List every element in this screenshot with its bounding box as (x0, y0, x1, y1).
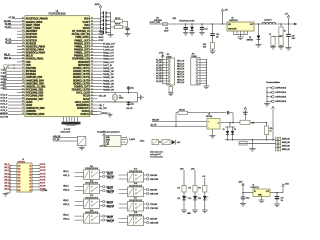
Chucks installation terminal list (264, 81, 287, 106)
svg-text:TMS/AN10_RB10: TMS/AN10_RB10 (26, 112, 45, 116)
svg-text:CAPRCH2UB: CAPRCH2UB (275, 91, 287, 94)
svg-text:O9: O9 (29, 190, 31, 192)
svg-text:CAPRCH4UB: CAPRCH4UB (275, 100, 287, 103)
LED LD3 with resistor R15 (198, 176, 208, 212)
op-amp U4 (206, 114, 220, 129)
resistor R7 at U1 bottom right (90, 112, 113, 118)
output wire +3V3 (270, 183, 290, 193)
ground under U4 (210, 129, 216, 138)
fuse and terminal pair TB1 (152, 140, 181, 145)
svg-text:battery circuit: battery circuit (61, 131, 71, 134)
svg-text:VBUS: VBUS (98, 37, 104, 39)
svg-text:P_SYNC_IN: P_SYNC_IN (103, 49, 114, 51)
svg-text:LIN9_D: LIN9_D (4, 189, 10, 191)
power flag +UP and capacitor C18 (285, 14, 296, 51)
fuse F1 (154, 18, 168, 26)
off-sheet arrow at rail end (294, 23, 298, 26)
svg-text:MBR360: MBR360 (247, 40, 253, 42)
svg-text:C5B COM5: C5B COM5 (150, 179, 158, 181)
ground under bus (249, 140, 255, 151)
svg-text:10u: 10u (216, 37, 219, 39)
svg-text:ROUT7: ROUT7 (40, 183, 46, 185)
svg-text:LIN7_D: LIN7_D (4, 183, 10, 185)
crystal Y2 32kHz at left (3, 64, 17, 70)
svg-text:1u: 1u (107, 28, 109, 30)
regulator U2 LM2576 (227, 17, 254, 39)
svg-text:VIN7_D: VIN7_D (107, 203, 113, 205)
output net ladder at U1 lower left (0, 95, 17, 119)
svg-text:PWM4_OUT: PWM4_OUT (103, 62, 115, 64)
svg-text:PWM1L_DR: PWM1L_DR (103, 68, 114, 70)
capacitor C21 (240, 192, 249, 206)
svg-text:SD_CS: SD_CS (5, 27, 12, 29)
net label column between headers (177, 61, 185, 84)
svg-text:C24 C25: C24 C25 (126, 108, 132, 110)
svg-text:+U_PME: +U_PME (40, 190, 48, 192)
resistor R23 on lower bus (239, 141, 247, 145)
power arrow at x273 (272, 106, 275, 140)
svg-text:PWM4H_DR: PWM4H_DR (103, 89, 115, 91)
svg-text:R7 1M: R7 1M (102, 113, 107, 115)
svg-text:R9 10K: R9 10K (115, 24, 121, 26)
svg-text:PWM3H_DR: PWM3H_DR (103, 83, 115, 85)
svg-text:LIN4_D: LIN4_D (4, 173, 10, 175)
svg-text:IN9: IN9 (18, 190, 21, 192)
svg-text:VSS8_D: VSS8_D (107, 221, 114, 223)
svg-text:C6A CAW: C6A CAW (150, 188, 158, 191)
svg-text:LIN5_D: LIN5_D (4, 176, 10, 178)
svg-text:VIN6_D: VIN6_D (107, 188, 113, 190)
diode D2 shunt (189, 23, 195, 35)
output wire of U4 (220, 122, 240, 123)
svg-text:100u: 100u (292, 38, 296, 40)
svg-text:D5: D5 (223, 129, 225, 131)
svg-text:PP97T: PP97T (1, 85, 7, 87)
svg-text:1u: 1u (107, 32, 109, 34)
svg-text:K9_RD: K9_RD (156, 81, 162, 83)
svg-text:C8B COM8: C8B COM8 (150, 222, 158, 224)
svg-text:VIN8_D: VIN8_D (107, 217, 113, 219)
svg-text:LIN6_D: LIN6_D (4, 179, 10, 181)
svg-text:S_BUS: S_BUS (129, 139, 136, 141)
svg-text:C8A CAW: C8A CAW (150, 217, 158, 220)
resistor R22 vertical (264, 122, 272, 140)
svg-text:O4: O4 (29, 174, 31, 176)
svg-text:+5Vxx: +5Vxx (140, 141, 145, 143)
svg-text:OUT6_D: OUT6_D (0, 110, 8, 112)
svg-text:15p: 15p (131, 103, 134, 105)
svg-text:PULSE_CNT: PULSE_CNT (103, 46, 115, 48)
svg-text:SMDA05B: SMDA05B (154, 19, 162, 22)
svg-text:C7B COM7: C7B COM7 (150, 208, 158, 210)
svg-text:L2 200uH: L2 200uH (264, 20, 272, 22)
power flag AVDD (95, 3, 102, 12)
U1 right pins with pin numbers and names (72, 17, 98, 116)
power flag +5VD at JP1 (159, 52, 165, 83)
net labels and wires at U1 left edge (4, 16, 17, 59)
capacitor C16 and resistor R10 branch (203, 23, 219, 53)
svg-text:OUT5_D: OUT5_D (0, 107, 8, 109)
svg-text:470: 470 (198, 187, 201, 189)
svg-text:+3V3: +3V3 (180, 168, 184, 170)
svg-text:+5 VD: +5 VD (159, 52, 164, 54)
svg-text:VSS6_D: VSS6_D (107, 192, 114, 194)
regulator U5 LM1117-3.3 (243, 185, 270, 203)
relay RL1 (63, 166, 114, 179)
feedback resistors R11 R12 R13 (269, 23, 287, 49)
svg-text:AN7W_UB: AN7W_UB (282, 145, 291, 148)
svg-text:ROUT1: ROUT1 (40, 164, 46, 166)
svg-text:RT_BUZ_OUT: RT_BUZ_OUT (103, 43, 116, 45)
svg-text:KEY9_IN: KEY9_IN (177, 82, 185, 84)
svg-text:CAPRCH1UB: CAPRCH1UB (275, 87, 287, 90)
analog SMD proportional connector (97, 131, 144, 148)
relay RL6 (107, 183, 158, 196)
inductor L2 (262, 20, 276, 24)
svg-text:VSS5_D: VSS5_D (107, 178, 114, 180)
svg-text:LD3: LD3 (198, 198, 201, 200)
svg-text:AN6W_UB: AN6W_UB (282, 141, 291, 144)
svg-text:IN6: IN6 (18, 181, 21, 183)
relay RL4 (63, 210, 114, 223)
header J2 bottom left (3, 159, 48, 196)
svg-text:ROUT2: ROUT2 (40, 167, 46, 169)
svg-text:PIC24FJ256GB110: PIC24FJ256GB110 (48, 14, 66, 16)
svg-text:OUT3_D: OUT3_D (0, 101, 8, 103)
svg-text:MCP601: MCP601 (206, 116, 212, 118)
svg-text:IN7: IN7 (18, 184, 21, 186)
svg-text:O1: O1 (29, 165, 31, 167)
svg-text:ROUT8: ROUT8 (40, 186, 46, 188)
svg-text:LIN3_D: LIN3_D (4, 170, 10, 172)
svg-text:IN1: IN1 (18, 165, 21, 167)
svg-text:VIN4_D: VIN4_D (63, 215, 69, 217)
battery circuit (53, 131, 86, 150)
svg-text:ROUT3: ROUT3 (40, 170, 46, 172)
net labels AN5_MV and AD_TR (151, 119, 208, 127)
svg-text:VUSB: VUSB (98, 34, 104, 36)
svg-text:R20 10K: R20 10K (179, 110, 186, 112)
svg-text:10u: 10u (281, 200, 284, 202)
svg-text:O6: O6 (29, 181, 31, 183)
svg-text:O7: O7 (29, 184, 31, 186)
svg-text:1u: 1u (107, 20, 109, 22)
svg-text:VIN2_D: VIN2_D (63, 185, 69, 187)
svg-text:SM1: SM1 (173, 18, 176, 20)
svg-text:Terminal B slot 201: Terminal B slot 201 (150, 155, 163, 158)
svg-text:+3V2: +3V2 (191, 168, 195, 170)
svg-text:CAPRCH3UB: CAPRCH3UB (275, 96, 287, 99)
U1 left pins with pin numbers and names (17, 17, 48, 116)
series resistor R21 (240, 120, 267, 124)
svg-text:1u: 1u (107, 24, 109, 26)
svg-text:VSS1_D: VSS1_D (63, 175, 70, 177)
svg-text:VSS2_D: VSS2_D (63, 189, 70, 191)
LED LD1 with resistor R13 (177, 168, 187, 212)
svg-text:PWM1_OUT: PWM1_OUT (103, 53, 115, 55)
svg-text:470: 470 (177, 187, 180, 189)
svg-text:IN2: IN2 (18, 168, 21, 170)
svg-text:OUT2_D: OUT2_D (0, 98, 8, 100)
svg-text:NASNF: NASNF (1, 75, 8, 78)
LED LD2 with resistor R14 (188, 168, 198, 212)
svg-text:IN8: IN8 (18, 187, 21, 189)
power flag +5V0 (238, 182, 244, 193)
svg-text:8MHz: 8MHz (119, 98, 123, 100)
svg-text:C6B COM6: C6B COM6 (150, 193, 158, 195)
svg-text:PWM4L_DR: PWM4L_DR (103, 86, 114, 88)
svg-text:VCAP: VCAP (98, 30, 104, 33)
svg-text:15p: 15p (131, 88, 134, 90)
svg-text:LD2: LD2 (188, 198, 191, 200)
capacitor C22 tantalum (274, 193, 283, 207)
svg-text:D6: D6 (234, 129, 236, 131)
svg-text:ROUT6: ROUT6 (40, 179, 46, 181)
svg-text:R8 10K: R8 10K (115, 18, 121, 20)
svg-text:PWM2H_DR: PWM2H_DR (103, 77, 115, 79)
svg-text:VSS3_D: VSS3_D (63, 204, 70, 206)
analog bus wires (225, 139, 276, 143)
svg-text:C7A CAW: C7A CAW (150, 203, 158, 206)
svg-text:C14: C14 (205, 28, 208, 30)
svg-text:VSS4_D: VSS4_D (63, 219, 70, 221)
clamp diodes D5 D6 (223, 122, 236, 140)
TVS and choke labels (173, 18, 196, 22)
power rail wire (150, 23, 228, 25)
relay RL5 (107, 169, 158, 182)
svg-text:LD1: LD1 (177, 198, 180, 200)
svg-text:LIN8_D: LIN8_D (4, 186, 10, 188)
svg-text:CFSPV: CFSPV (1, 88, 8, 90)
svg-text:3K3: 3K3 (203, 46, 206, 48)
resistors R8 R9 right of cap bank (98, 18, 130, 42)
svg-text:AVDD: AVDD (95, 3, 100, 6)
svg-text:IN3: IN3 (18, 171, 21, 173)
output wire of U2 (254, 23, 294, 25)
svg-text:VIN3_D: VIN3_D (63, 200, 69, 202)
svg-text:SOSCO: SOSCO (80, 112, 88, 116)
svg-text:OSC_SE: OSC_SE (99, 96, 107, 98)
relay RL7 (107, 198, 158, 211)
svg-text:PWM2L_DR: PWM2L_DR (103, 74, 114, 76)
svg-text:IN4: IN4 (18, 174, 21, 176)
net labels at U1 right pins (98, 43, 117, 91)
svg-text:1u: 1u (107, 13, 109, 15)
svg-text:PWM3_OUT: PWM3_OUT (103, 59, 115, 61)
more left net wires (1, 70, 18, 91)
net labels left of JP1 (156, 60, 162, 83)
svg-text:T_SDA: T_SDA (1, 72, 8, 75)
svg-text:O8: O8 (29, 187, 31, 189)
header JP1 CON10 (162, 54, 174, 85)
svg-text:1u: 1u (107, 16, 109, 18)
svg-text:TVS 5W CM-CHOKE: TVS 5W CM-CHOKE (179, 20, 195, 22)
svg-text:CBL_TOP: CBL_TOP (99, 108, 108, 110)
svg-text:O2: O2 (29, 168, 31, 170)
svg-text:LIN2_D: LIN2_D (4, 167, 10, 169)
svg-text:OUT1_D: OUT1_D (0, 95, 8, 97)
resistor R14 under JP1 (168, 85, 174, 96)
svg-text:O5: O5 (29, 178, 31, 180)
svg-text:OUT4_D: OUT4_D (0, 104, 8, 106)
power flag +UR at rail (221, 9, 228, 25)
svg-text:VIN1_D: VIN1_D (63, 171, 69, 173)
crystal Y1 with load capacitors C24 C25 (98, 86, 144, 110)
svg-text:VSS7_D: VSS7_D (107, 207, 114, 209)
diode D4 (247, 23, 262, 47)
terminal block TB2 right (276, 137, 291, 151)
capacitor C13 shunt (164, 23, 189, 35)
svg-text:B_OUT7: B_OUT7 (0, 113, 8, 115)
relay RL3 (63, 195, 114, 208)
svg-text:+CLK +5: +CLK +5 (99, 145, 107, 147)
svg-text:XDTBG: XDTBG (1, 79, 8, 81)
microcontroller U1 (25, 11, 90, 117)
svg-text:VIN5_D: VIN5_D (107, 174, 113, 176)
svg-text:B_OUT8: B_OUT8 (0, 116, 8, 118)
feedback resistor R20 and cap C26 (175, 110, 233, 127)
svg-text:C5A CAW: C5A CAW (150, 174, 158, 177)
annotation text block (150, 150, 163, 158)
svg-text:O3: O3 (29, 171, 31, 173)
relay RL8 (107, 212, 158, 225)
svg-text:GND ON FB: GND ON FB (228, 29, 237, 31)
capacitor C14 shunt (199, 23, 207, 35)
svg-text:Chucks installation: Chucks installation (266, 81, 281, 84)
svg-text:CBL_T: CBL_T (99, 105, 105, 107)
svg-text:PWM3L_DR: PWM3L_DR (103, 80, 114, 82)
svg-text:IN5: IN5 (18, 178, 21, 180)
svg-text:ROUT5: ROUT5 (40, 176, 46, 178)
svg-text:470: 470 (188, 187, 191, 189)
svg-text:ROUT4: ROUT4 (40, 173, 46, 175)
ICSP connector J1 under U1 (62, 117, 81, 131)
svg-text:100n: 100n (246, 198, 249, 200)
svg-text:AN8W_UB: AN8W_UB (282, 148, 291, 151)
relay RL2 (63, 180, 114, 193)
power flag and cap C27 above R21 (243, 107, 248, 120)
svg-text:AnalogSMD_deco proportional: AnalogSMD_deco proportional (97, 131, 120, 134)
svg-text:PLSCT_IN: PLSCT_IN (103, 65, 113, 67)
svg-text:PWM2_OUT: PWM2_OUT (103, 56, 115, 58)
svg-text:LIN1_D: LIN1_D (4, 164, 10, 166)
svg-text:UCAP: UCAP (98, 39, 104, 42)
header JP2 CON10 (191, 54, 210, 89)
svg-text:PWM1H_DR: PWM1H_DR (103, 71, 115, 73)
svg-text:4LE3H: 4LE3H (1, 82, 7, 84)
decoupling capacitor bank C1-C5 (98, 11, 114, 37)
svg-text:AN5W_UB: AN5W_UB (282, 138, 291, 141)
